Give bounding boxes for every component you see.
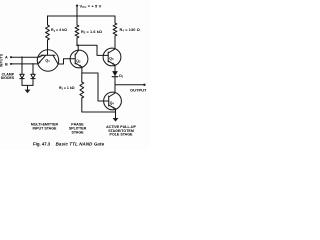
svg-text:B: B <box>5 62 8 66</box>
Vcc terminal <box>76 5 78 7</box>
resistor R2 <box>75 25 79 38</box>
transistor Q4 <box>104 92 122 110</box>
wire diode to output node <box>114 77 116 85</box>
svg-text:R1 = 4 kΩ: R1 = 4 kΩ <box>51 28 67 33</box>
node clamp B junction <box>32 63 34 65</box>
wire clamp diodes join <box>22 85 33 90</box>
svg-text:Fig. 47.3: Fig. 47.3 <box>33 141 51 146</box>
wire R2 bottom lead <box>76 38 78 45</box>
transistor Q3 <box>103 48 121 66</box>
wire R4 to Q3 collector <box>114 36 116 49</box>
svg-text:D1: D1 <box>119 74 124 79</box>
wire Q1 collector to Q2 base <box>58 59 70 64</box>
svg-text:DIODES: DIODES <box>1 76 15 80</box>
wire Q2 emitter to R3 junction <box>81 67 83 73</box>
resistor R3 <box>80 82 84 98</box>
diode D1 <box>112 71 118 76</box>
node R2/Q2 collector junction <box>76 44 78 46</box>
svg-text:Basic TTL NAND Gate: Basic TTL NAND Gate <box>56 141 105 146</box>
wire Q3 emitter to diode <box>114 65 116 71</box>
resistor R4 <box>113 23 117 36</box>
Q1 emitter arrow (A) <box>38 56 41 58</box>
svg-text:Q3: Q3 <box>109 57 114 62</box>
Q3 emitter arrow <box>112 63 115 65</box>
wire input A <box>11 56 38 58</box>
wire output node to Q4 collector <box>114 85 116 93</box>
svg-text:INPUTS: INPUTS <box>0 53 3 67</box>
wire R1 top lead <box>47 16 49 25</box>
wire Vcc rail <box>48 15 116 17</box>
svg-text:OUTPUT: OUTPUT <box>130 88 147 93</box>
Q2 emitter arrow <box>79 65 82 67</box>
Q4 emitter arrow <box>113 107 116 109</box>
wire Q2 collector up <box>77 45 79 51</box>
wire junction to Q3 base <box>77 45 103 55</box>
wire clamp diode B drop <box>32 64 34 74</box>
ground (Q4 emitter) <box>113 118 119 122</box>
svg-text:R3 = 1 kΩ: R3 = 1 kΩ <box>59 86 75 91</box>
wire input B <box>11 63 38 65</box>
wire R3 bottom to ground run <box>82 98 116 112</box>
transistor Q2 <box>70 50 88 68</box>
wire clamp diode A drop <box>21 57 23 74</box>
wire R1 to Q1 base <box>47 40 49 55</box>
wire junction to Q4 base <box>82 73 109 101</box>
svg-text:Q1: Q1 <box>45 59 50 64</box>
Q1 emitter arrow (B) <box>38 61 41 64</box>
svg-text:Q2: Q2 <box>76 59 81 64</box>
wire R3 top lead <box>81 73 83 82</box>
output terminal <box>143 84 145 86</box>
wire R4 top lead <box>114 16 116 23</box>
wire output <box>115 84 144 86</box>
clamp diode (input A) <box>20 74 24 78</box>
svg-text:A: A <box>5 56 8 60</box>
svg-text:Q4: Q4 <box>110 101 115 106</box>
transistor Q1 <box>37 50 58 71</box>
wire R2 top lead <box>76 16 78 25</box>
clamp diode (input B) <box>31 74 35 78</box>
resistor R1 <box>46 25 50 40</box>
svg-text:STAGE: STAGE <box>71 131 84 135</box>
ground (clamp diodes) <box>25 90 31 94</box>
wire Vcc drop <box>76 6 78 16</box>
svg-text:VCC = + 5 V: VCC = + 5 V <box>80 3 102 9</box>
svg-text:INPUT STAGE: INPUT STAGE <box>33 126 57 130</box>
svg-text:POLE STAGE: POLE STAGE <box>110 133 133 137</box>
node clamp A junction <box>21 56 23 58</box>
wire Q4 emitter to ground <box>115 109 117 118</box>
